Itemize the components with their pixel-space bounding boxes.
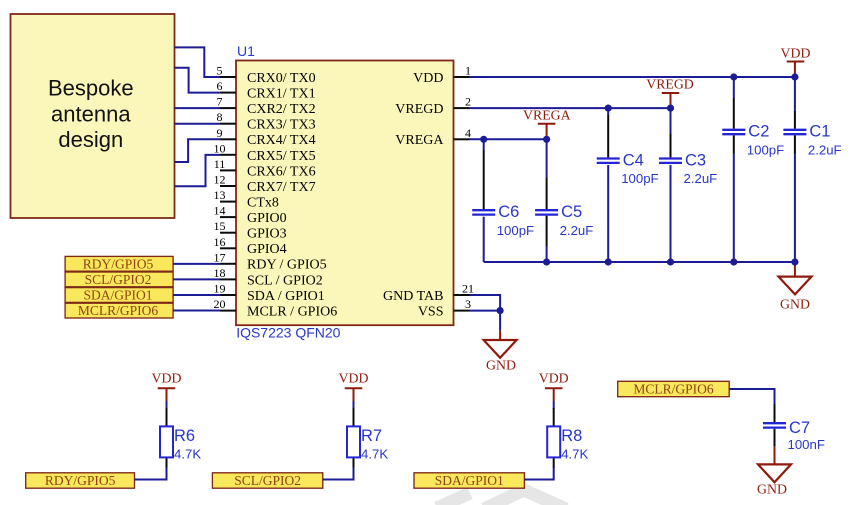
svg-text:GND: GND [757, 482, 787, 497]
svg-text:C6: C6 [498, 203, 519, 221]
svg-text:IQS7223 QFN20: IQS7223 QFN20 [236, 325, 340, 341]
svg-text:MCLR/GPIO6: MCLR/GPIO6 [633, 382, 714, 397]
svg-text:MCLR / GPIO6: MCLR / GPIO6 [247, 304, 337, 319]
svg-text:U1: U1 [237, 43, 255, 59]
svg-text:13: 13 [214, 188, 226, 202]
svg-text:VSS: VSS [418, 304, 444, 319]
svg-text:R8: R8 [561, 427, 582, 445]
svg-text:7: 7 [217, 95, 223, 109]
svg-text:CRX4/ TX4: CRX4/ TX4 [247, 133, 316, 148]
svg-text:17: 17 [214, 250, 226, 264]
svg-text:CRX7/ TX7: CRX7/ TX7 [247, 180, 316, 195]
svg-text:SCL / GPIO2: SCL / GPIO2 [247, 273, 323, 288]
svg-text:C2: C2 [748, 123, 769, 141]
svg-text:CRX1/ TX1: CRX1/ TX1 [247, 87, 316, 102]
svg-text:6: 6 [217, 79, 223, 93]
svg-text:GPIO4: GPIO4 [247, 242, 287, 257]
svg-text:CXR2/ TX2: CXR2/ TX2 [247, 102, 316, 117]
svg-text:VDD: VDD [152, 371, 182, 386]
svg-text:12: 12 [214, 173, 226, 187]
svg-text:Bespoke: Bespoke [48, 76, 134, 101]
svg-text:GND: GND [780, 297, 810, 312]
svg-text:GPIO0: GPIO0 [247, 211, 287, 226]
svg-text:RDY/GPIO5: RDY/GPIO5 [83, 257, 154, 272]
svg-text:SDA / GPIO1: SDA / GPIO1 [247, 289, 325, 304]
svg-text:8: 8 [217, 110, 223, 124]
svg-text:18: 18 [214, 266, 226, 280]
svg-text:VREGD: VREGD [646, 77, 694, 92]
svg-text:SDA/GPIO1: SDA/GPIO1 [435, 473, 504, 488]
svg-text:100nF: 100nF [788, 437, 825, 452]
svg-text:11: 11 [214, 157, 226, 171]
svg-text:VREGD: VREGD [395, 102, 443, 117]
svg-text:design: design [58, 127, 123, 152]
svg-text:1: 1 [465, 64, 471, 78]
svg-text:VREGA: VREGA [523, 108, 571, 123]
svg-text:4.7K: 4.7K [561, 447, 588, 462]
svg-text:9: 9 [217, 126, 223, 140]
svg-text:C3: C3 [685, 151, 706, 169]
svg-text:GPIO3: GPIO3 [247, 227, 287, 242]
svg-text:GND TAB: GND TAB [383, 289, 443, 304]
svg-text:19: 19 [214, 282, 226, 296]
svg-text:VDD: VDD [413, 71, 443, 86]
svg-text:RDY/GPIO5: RDY/GPIO5 [45, 473, 116, 488]
svg-text:21: 21 [462, 282, 474, 296]
svg-text:CRX6/ TX6: CRX6/ TX6 [247, 164, 316, 179]
svg-text:VDD: VDD [781, 46, 811, 61]
svg-text:antenna: antenna [51, 101, 131, 126]
svg-text:2.2uF: 2.2uF [560, 223, 594, 238]
svg-text:CRX0/ TX0: CRX0/ TX0 [247, 71, 316, 86]
svg-text:SCL/GPIO2: SCL/GPIO2 [234, 473, 301, 488]
svg-text:16: 16 [214, 235, 226, 249]
svg-text:VREGA: VREGA [395, 133, 444, 148]
svg-text:3: 3 [465, 297, 471, 311]
svg-text:100pF: 100pF [621, 171, 658, 186]
svg-text:C4: C4 [623, 151, 644, 169]
svg-text:14: 14 [214, 204, 226, 218]
svg-text:CTx8: CTx8 [247, 196, 279, 211]
svg-text:C7: C7 [789, 419, 810, 437]
svg-text:R6: R6 [174, 427, 195, 445]
svg-text:20: 20 [214, 297, 226, 311]
svg-text:VDD: VDD [339, 371, 369, 386]
svg-text:2.2uF: 2.2uF [684, 171, 718, 186]
svg-text:MCLR/GPIO6: MCLR/GPIO6 [78, 303, 159, 318]
svg-text:15: 15 [214, 219, 226, 233]
svg-text:C5: C5 [561, 203, 582, 221]
svg-text:4.7K: 4.7K [174, 447, 201, 462]
svg-text:2.2uF: 2.2uF [808, 143, 842, 158]
svg-text:2: 2 [465, 95, 471, 109]
svg-text:C1: C1 [809, 123, 830, 141]
svg-text:CRX3/ TX3: CRX3/ TX3 [247, 118, 316, 133]
svg-text:SDA/GPIO1: SDA/GPIO1 [83, 288, 152, 303]
svg-text:100pF: 100pF [747, 143, 784, 158]
svg-text:100pF: 100pF [497, 223, 534, 238]
svg-text:CRX5/ TX5: CRX5/ TX5 [247, 149, 316, 164]
svg-text:GND: GND [486, 358, 516, 373]
svg-text:10: 10 [214, 141, 226, 155]
svg-text:VDD: VDD [539, 371, 569, 386]
svg-text:4: 4 [465, 126, 471, 140]
svg-text:4.7K: 4.7K [361, 447, 388, 462]
svg-text:RDY / GPIO5: RDY / GPIO5 [247, 258, 327, 273]
svg-text:R7: R7 [361, 427, 382, 445]
svg-text:SCL/GPIO2: SCL/GPIO2 [85, 272, 152, 287]
svg-text:5: 5 [217, 64, 223, 78]
